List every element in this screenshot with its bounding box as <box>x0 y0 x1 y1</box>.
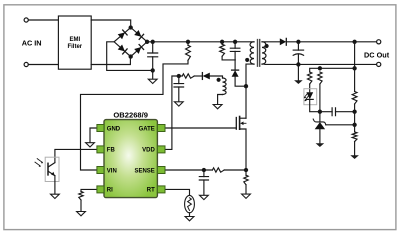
secondary ground below TL431 <box>316 143 325 147</box>
feedback bias line from divider top <box>310 68 355 72</box>
wire secondary bottom return line to DC out <box>262 63 377 65</box>
secondary ground below divider <box>350 155 359 159</box>
opto light arrows <box>35 159 42 166</box>
secondary phase dot <box>265 45 268 48</box>
VDD capacitor <box>178 76 180 84</box>
svg-text:SENSE: SENSE <box>134 168 154 174</box>
node snubber cap top <box>234 40 237 43</box>
transformer core <box>258 40 260 67</box>
ground below RT resistor <box>185 217 194 221</box>
svg-text:AC IN: AC IN <box>22 39 42 48</box>
LED emission arrows <box>304 93 308 100</box>
DC out terminal top <box>377 40 381 44</box>
primary phase dot <box>246 58 249 61</box>
wire bridge negative: left vertex to primary ground rail <box>107 42 153 71</box>
optocoupler LED package <box>304 89 317 105</box>
wire bridge positive to main rail <box>147 41 254 43</box>
svg-text:Filter: Filter <box>67 44 82 50</box>
opto LED series resistor <box>308 72 312 84</box>
secondary ground below output cap <box>297 64 299 80</box>
wire AC bottom to EMI filter <box>28 64 58 66</box>
transformer primary winding <box>250 42 254 64</box>
wire RI pin to RI resistor <box>81 189 97 191</box>
pin pad VIN <box>97 167 104 174</box>
output rectifier diode <box>280 38 286 45</box>
svg-text:VIN: VIN <box>107 168 117 174</box>
node sense filter cap <box>202 168 205 171</box>
wire FB pin to optocoupler collector <box>55 149 97 162</box>
aux rectifier diode <box>201 73 203 80</box>
node bridge top vertex <box>129 26 132 29</box>
wire AC top to EMI filter <box>28 19 58 21</box>
pin pad RT <box>157 186 165 193</box>
ground below sense resistor <box>242 194 251 198</box>
snubber capacitor <box>234 42 236 48</box>
wire primary bottom to MOSFET drain <box>246 64 254 118</box>
node snubber resistor top <box>221 40 224 43</box>
wire VDD pin to aux supply <box>165 76 179 149</box>
node VDD cap junction <box>177 74 180 77</box>
pin pad FB <box>97 146 104 153</box>
wire startup resistor to VIN pin <box>81 60 189 170</box>
MOSFET Q1 <box>235 118 237 130</box>
primary ground below bulk cap <box>152 70 154 79</box>
startup resistor to VIN <box>187 42 189 46</box>
optocoupler phototransistor <box>47 163 49 175</box>
RI resistor <box>79 191 83 200</box>
divider upper resistor <box>352 92 357 105</box>
snubber resistor <box>220 44 225 56</box>
DC out terminal bottom <box>377 62 381 66</box>
wire SENSE pin <box>165 169 212 171</box>
node startup resistor top <box>186 40 189 43</box>
bridge rectifier diamond wires <box>114 28 147 57</box>
svg-text:RI: RI <box>107 188 113 194</box>
AC input terminal bottom <box>24 62 28 66</box>
node output divider top <box>353 40 356 43</box>
optocoupler phototransistor package <box>45 157 59 181</box>
svg-text:DC Out: DC Out <box>364 51 390 60</box>
node bulk cap negative <box>151 69 154 72</box>
node bridge bottom vertex <box>129 55 132 58</box>
svg-text:EMI: EMI <box>69 37 80 43</box>
wire secondary top to output diode <box>262 41 280 43</box>
svg-text:VDD: VDD <box>142 148 155 154</box>
ground below RI resistor <box>77 212 86 216</box>
bridge diode left-bottom <box>118 45 125 52</box>
pin pad GND <box>97 125 104 132</box>
node bias resistor top <box>318 67 321 70</box>
output capacitor (electrolytic) <box>297 42 299 50</box>
op-amp U1 OB2268/9 controller IC <box>97 120 165 198</box>
sense filter capacitor <box>203 170 205 177</box>
node MOSFET source / sense resistor <box>244 168 247 171</box>
snubber clamp diode <box>234 60 236 70</box>
bulk capacitor <box>152 42 154 53</box>
node bias line to divider <box>353 67 356 70</box>
current sense resistor <box>244 175 248 185</box>
svg-text:GATE: GATE <box>139 126 155 132</box>
node bridge right vertex <box>146 40 149 43</box>
wire divider from output rail <box>354 42 356 92</box>
aux phase dot <box>217 78 220 81</box>
aux series resistor <box>179 75 182 77</box>
ground below sense cap <box>200 195 209 199</box>
optocoupler LED diode <box>306 92 313 99</box>
wire GND pin to ground <box>90 128 97 143</box>
wire GATE pin to MOSFET gate <box>165 127 236 129</box>
ground below opto emitter <box>51 194 60 198</box>
node comp cap to divider mid <box>353 110 356 113</box>
TL431 ref line to divider <box>326 124 355 126</box>
pin pad VDD <box>157 146 165 153</box>
node LED / bias R / TL431 junction <box>318 110 321 113</box>
wire output rail <box>286 41 376 43</box>
node output cap to return line <box>297 63 300 66</box>
auxiliary winding <box>223 78 227 95</box>
svg-text:GND: GND <box>107 126 121 132</box>
pin pad GATE <box>157 125 165 132</box>
ground below GND pin <box>86 143 95 147</box>
RT resistor (enclosed) <box>185 195 195 212</box>
transformer secondary winding <box>262 42 266 64</box>
divider lower resistor <box>352 132 357 142</box>
TL431 shunt regulator <box>319 112 321 122</box>
sense filter resistor <box>212 168 224 172</box>
node ref to divider <box>353 123 356 126</box>
EMI filter block <box>58 16 91 69</box>
bridge diode left-top <box>118 33 125 40</box>
wire RT pin to timing resistor <box>165 189 190 195</box>
bridge diode top-right <box>134 30 141 37</box>
svg-text:RT: RT <box>147 188 155 194</box>
node bulk cap positive <box>151 40 154 43</box>
node output cap top <box>297 40 300 43</box>
ground below aux winding <box>213 105 222 109</box>
svg-text:FB: FB <box>107 148 116 154</box>
bridge diode bottom-right <box>134 47 141 54</box>
pin pad RI <box>97 186 104 193</box>
svg-text:OB2268/9: OB2268/9 <box>113 110 148 119</box>
node clamp diode to drain <box>244 85 247 88</box>
pin pad SENSE <box>157 167 165 174</box>
wire EMI filter top output to bridge top vertex <box>91 20 131 28</box>
wire aux winding to ground <box>218 95 223 105</box>
ground below VDD cap <box>174 102 183 106</box>
bias resistor <box>318 72 322 84</box>
compensation capacitor <box>320 111 332 113</box>
wire EMI filter bottom output to bridge bottom vertex <box>91 57 130 65</box>
AC input terminal top <box>24 18 28 22</box>
